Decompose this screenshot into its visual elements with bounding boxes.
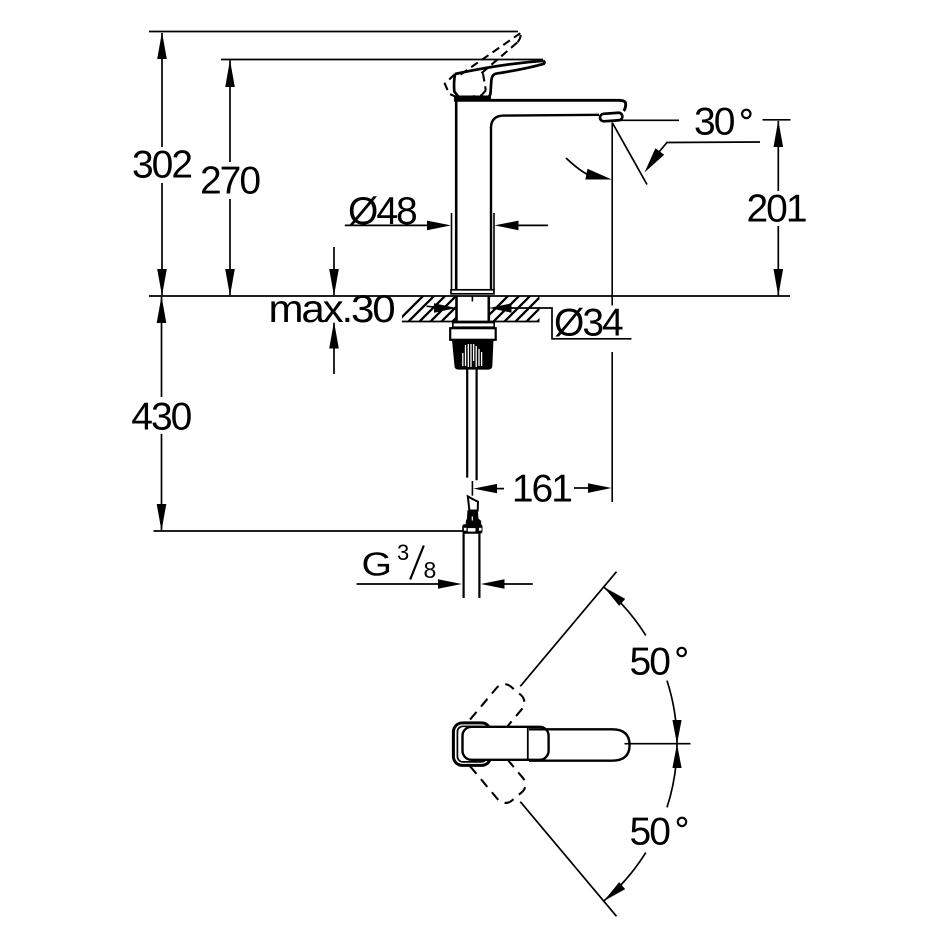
Ø34 arrow left — [427, 306, 446, 308]
dimension Ø48 line right — [495, 221, 519, 231]
hose ferrule — [466, 510, 481, 524]
svg-text:Ø34: Ø34 — [554, 302, 623, 345]
dimension 201 vertical line — [777, 121, 779, 191]
svg-text:3: 3 — [397, 540, 409, 565]
dashed base bottom — [460, 90, 486, 98]
dimension 430 bottom arrow — [157, 504, 167, 531]
handle solid: base bottom junction — [454, 95, 491, 99]
svg-text:430: 430 — [131, 396, 191, 439]
lower diagonal 50 — [520, 802, 616, 917]
faucet outer left edge — [455, 99, 458, 290]
dimension 161 right arrow — [574, 487, 590, 489]
Ø48 extension line right — [493, 213, 495, 290]
connector slot and facets — [468, 528, 476, 532]
dimension 161 left tick — [471, 481, 473, 496]
centerline right — [625, 743, 691, 745]
lower arc segment near centerline — [667, 744, 677, 807]
svg-text:Ø48: Ø48 — [348, 190, 416, 233]
handle solid: tip and underside/neck — [486, 61, 544, 98]
rotation arc arrow near spout — [566, 158, 589, 175]
dimension 430 top arrow — [157, 296, 167, 323]
hose connector nut — [462, 524, 482, 534]
arc arrowhead upper at centerline — [672, 720, 681, 744]
supply tube upper left line — [466, 369, 468, 478]
max.30 top arrow — [333, 247, 335, 295]
dashed blade tip — [518, 33, 521, 42]
30 deg lower leader with arrow — [659, 142, 760, 152]
extension line (270) — [221, 59, 543, 61]
svg-text:max.30: max.30 — [269, 288, 395, 331]
faucet base plate — [451, 290, 494, 294]
handle dashed (raised position) — [445, 33, 521, 98]
svg-text:270: 270 — [200, 160, 260, 203]
arc arrowhead at upper diagonal — [604, 587, 625, 606]
lower arc segment near diagonal — [604, 853, 646, 901]
spout aerator tip — [600, 113, 623, 122]
upper arc segment near diagonal — [604, 587, 646, 635]
arc arrowhead at lower diagonal — [604, 882, 625, 901]
dimension 201 top arrow — [774, 120, 784, 147]
svg-text:161: 161 — [512, 468, 571, 511]
dimension 302 vertical line — [161, 33, 163, 147]
dimension 270 bottom arrow — [225, 269, 235, 296]
spout centerline mid — [611, 296, 613, 306]
dimension 270 top arrow — [225, 60, 235, 87]
knurl streaks — [463, 344, 482, 367]
counter shaft left edge — [455, 296, 458, 322]
svg-text:G: G — [362, 546, 393, 583]
svg-text:302: 302 — [132, 144, 191, 187]
upper diagonal 50 — [520, 572, 616, 687]
top view lever divider — [527, 727, 529, 760]
spout centerline upper — [611, 123, 613, 297]
G3/8 tail pipe left — [463, 532, 465, 598]
counter top line — [149, 295, 790, 297]
faucet inner profile (spout underside + inner corner + inner edge) — [491, 115, 599, 290]
svg-text:201: 201 — [746, 187, 805, 230]
dashed neck front — [483, 74, 486, 91]
mounting washer — [453, 323, 494, 328]
G3/8 dim line right — [481, 579, 505, 588]
dimension 201 bottom arrow — [774, 269, 784, 296]
dashed base left — [445, 74, 460, 98]
top view lever mid section — [463, 727, 549, 760]
dashed blade lower edge — [482, 42, 518, 73]
extension line bottom (430) — [154, 530, 482, 532]
supply tube upper right line — [476, 369, 478, 480]
svg-text:8: 8 — [424, 557, 437, 583]
top view cap inner line — [457, 726, 486, 762]
spout centerline lower — [611, 352, 613, 502]
svg-text:30: 30 — [694, 101, 735, 144]
counter hatching right — [478, 292, 567, 326]
dimension 161 left arrow — [473, 484, 497, 493]
G3/8 tail pipe right — [478, 532, 480, 598]
dimension 430 vertical line — [161, 297, 163, 397]
dimension Ø48 line left — [345, 224, 428, 226]
svg-text:50: 50 — [630, 641, 671, 684]
upper arc segment near centerline — [667, 681, 677, 744]
counter bottom line — [402, 321, 540, 323]
arc arrowhead lower at centerline — [672, 744, 681, 768]
mounting knurled nut — [453, 340, 493, 369]
Ø48 extension line left — [451, 213, 453, 290]
dashed blade upper edge — [461, 33, 521, 74]
svg-text:50: 50 — [630, 810, 671, 853]
shaft center tick — [471, 296, 473, 302]
dimension 270 vertical line — [229, 61, 231, 163]
top view handle cap — [453, 723, 490, 766]
counter shaft right edge — [487, 296, 490, 322]
dashed lever rotated down 50 — [454, 726, 530, 807]
dimension 302 top arrow — [157, 32, 167, 59]
30 deg leader line from tip — [615, 119, 679, 121]
dashed lever rotated up 50 — [453, 680, 529, 761]
G3/8 dim line left — [357, 583, 439, 585]
hose lower angled piece — [468, 496, 478, 510]
handle solid: base left edge — [454, 74, 458, 97]
counter hatching left — [393, 292, 482, 326]
dimension 302 bottom arrow — [157, 269, 167, 296]
max.30 bottom arrow — [333, 323, 335, 374]
Ø34 arrow right and leader — [489, 303, 512, 312]
201 top tick line — [763, 119, 791, 121]
mounting spacer — [450, 328, 496, 340]
top view lever arm — [529, 729, 630, 760]
handle solid: blade top edge — [455, 61, 544, 74]
faucet top edge and end face — [454, 100, 626, 111]
30 deg diagonal line — [612, 123, 647, 185]
extension line top (302) — [149, 31, 518, 33]
